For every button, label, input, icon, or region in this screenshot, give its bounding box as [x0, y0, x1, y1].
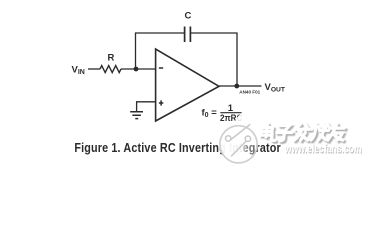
svg-text:VIN: VIN: [72, 65, 85, 77]
svg-text:C: C: [185, 11, 192, 22]
svg-text:AN40 F01: AN40 F01: [239, 89, 260, 94]
svg-text:f0 =: f0 =: [202, 108, 218, 120]
svg-text:R: R: [108, 53, 115, 64]
svg-text:VOUT: VOUT: [265, 82, 286, 94]
svg-text:www.elecfans.com: www.elecfans.com: [284, 143, 362, 156]
